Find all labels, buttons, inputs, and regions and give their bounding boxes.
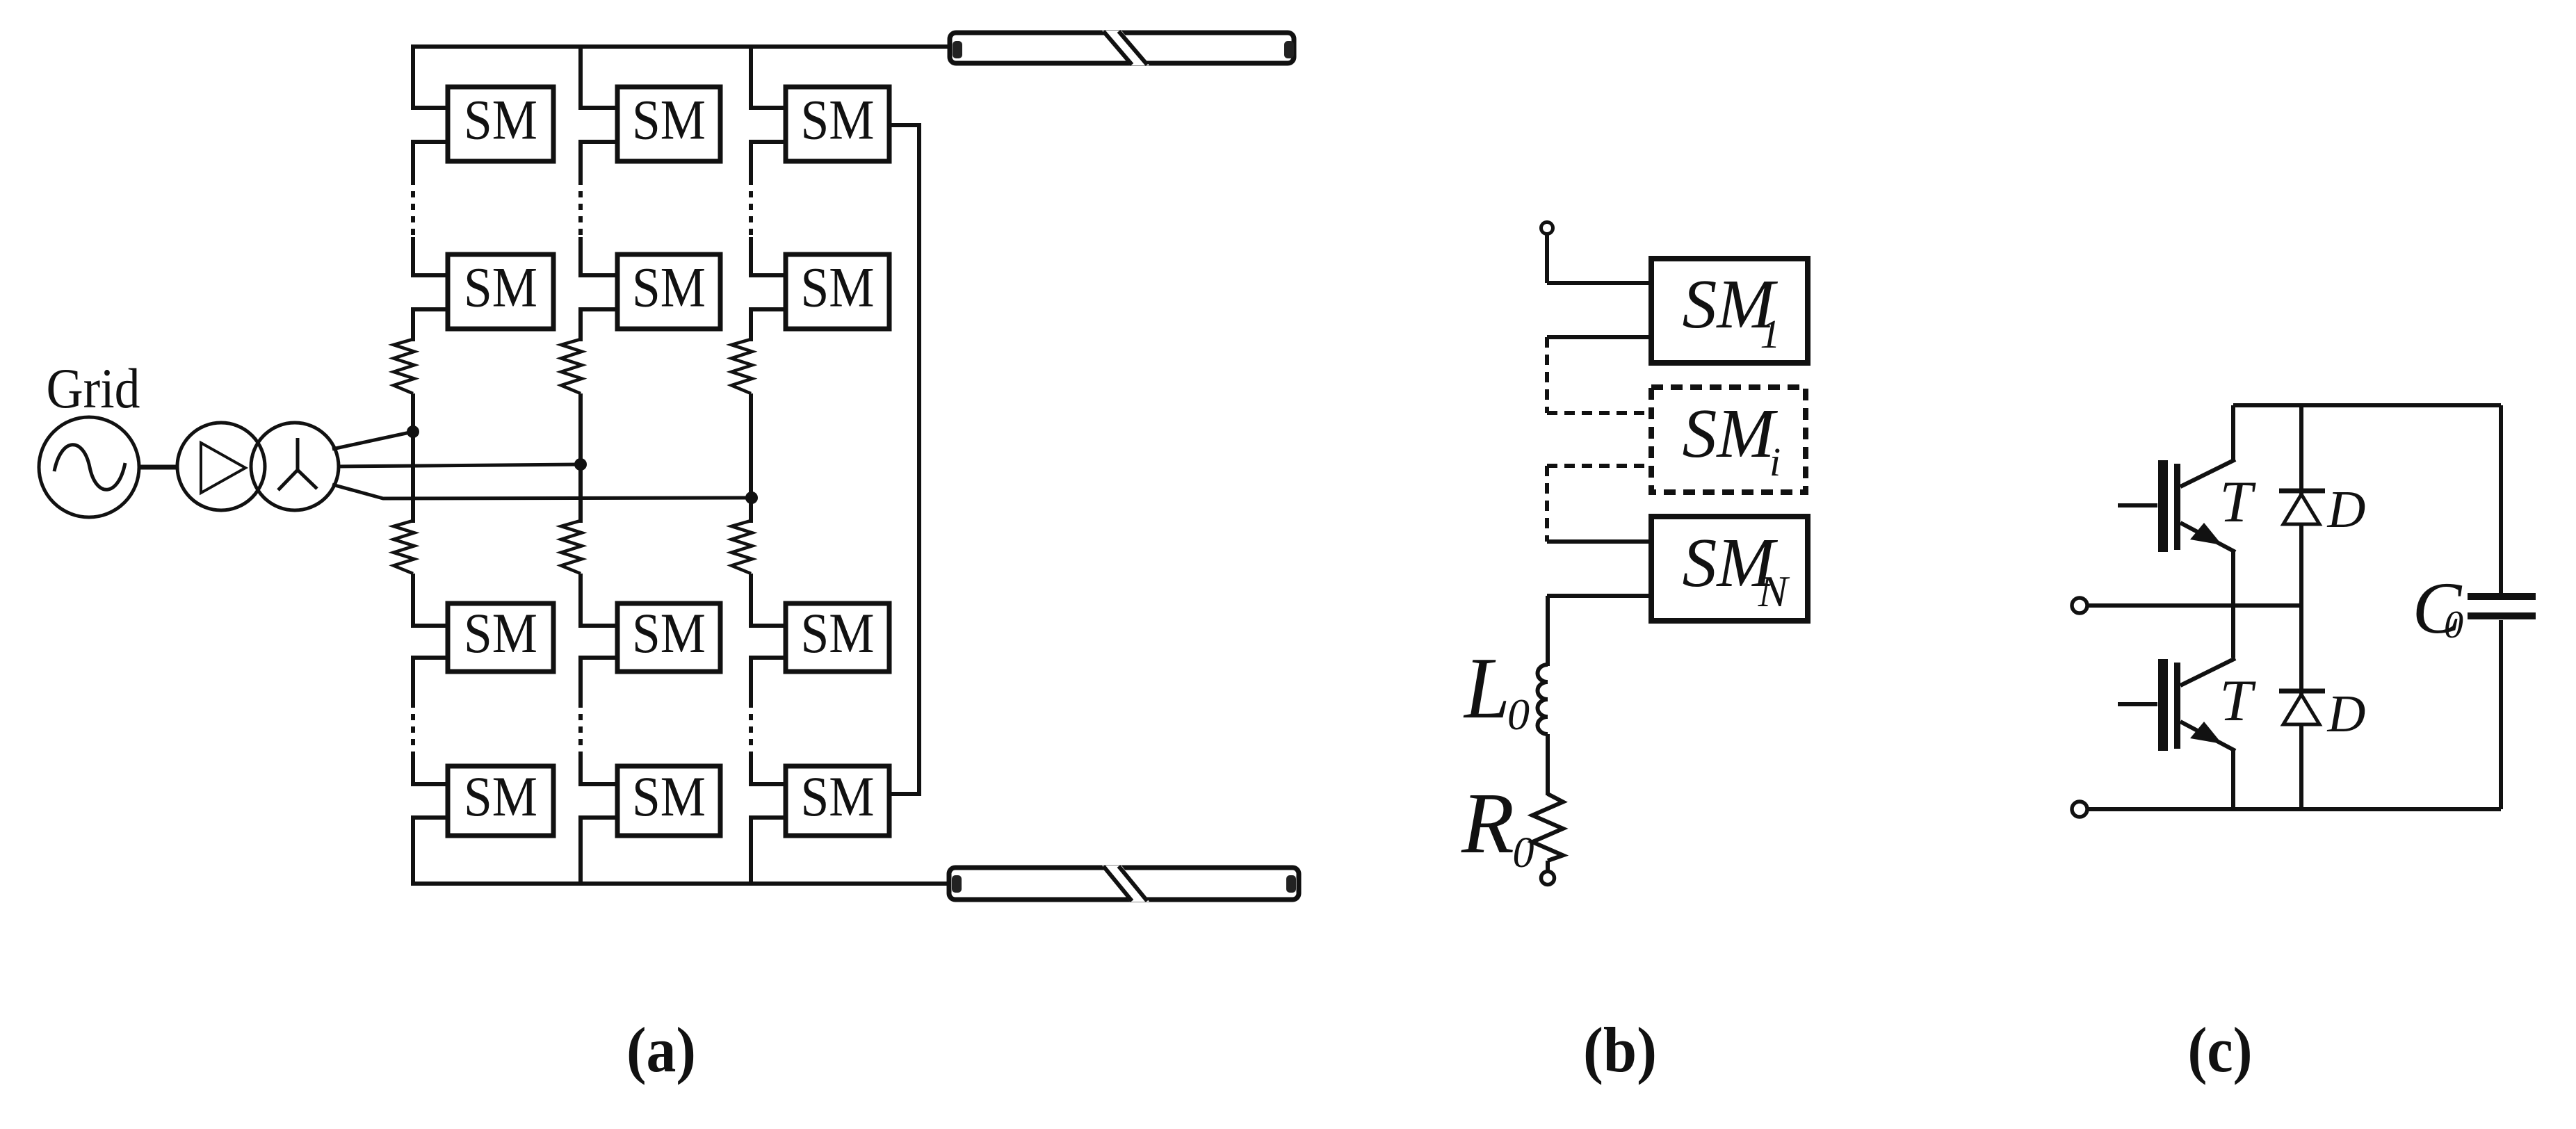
machine winding bar top (a) <box>950 31 1294 65</box>
wire mid rail (c) <box>2089 603 2301 608</box>
svg-text:(a): (a) <box>626 1014 696 1085</box>
svg-text:Grid: Grid <box>47 357 140 420</box>
wire stubs SM leg 1 row 2 <box>411 275 448 309</box>
submodule SM1 box (b) <box>1651 259 1808 363</box>
svg-text:T: T <box>2219 469 2256 535</box>
svg-text:SM: SM <box>464 88 537 152</box>
terminal node top (b) <box>1541 222 1553 234</box>
arm inductor lower leg 2 (zigzag) <box>561 521 582 574</box>
label R0 <box>1461 776 1534 877</box>
wire inductor to resistor (b) <box>1546 734 1550 795</box>
wire SM1 bottom terminal (b) <box>1547 335 1651 339</box>
phase line B to leg 2 <box>337 464 581 466</box>
svg-text:0: 0 <box>2444 603 2463 647</box>
svg-text:(c): (c) <box>2188 1014 2253 1085</box>
arm inductor lower leg 3 (zigzag) <box>731 521 752 574</box>
wire phase leg 3 lower arm <box>749 574 753 884</box>
wire stubs SM leg 3 row 4 <box>749 784 786 818</box>
terminal node bottom (b) <box>1541 872 1555 885</box>
submodule SM box leg 1 row 3 <box>448 601 553 672</box>
submodule SM box leg 2 row 2 <box>617 254 720 329</box>
svg-text:SM: SM <box>632 88 706 152</box>
svg-text:T: T <box>2219 668 2256 733</box>
junction node dot leg 3 <box>745 492 758 504</box>
wire stubs SM leg 3 row 2 <box>749 275 786 309</box>
submodule SM box leg 3 row 2 <box>786 254 889 329</box>
diode D upper (c) <box>2279 491 2325 524</box>
wire grid to converter <box>138 465 179 470</box>
wire SMN top terminal (b) <box>1547 539 1651 544</box>
wire phase leg 1 upper arm <box>411 44 415 341</box>
wire stubs SM leg 2 row 2 <box>578 275 617 309</box>
transformer secondary circle with wye <box>251 423 339 510</box>
label C0 <box>2413 567 2463 649</box>
arm inductor upper leg 2 (zigzag) <box>561 339 582 393</box>
svg-text:(b): (b) <box>1583 1014 1657 1085</box>
wire phase leg 3 upper arm <box>749 44 753 341</box>
arm inductor lower leg 1 (zigzag) <box>394 521 414 574</box>
wire stubs SM leg 3 row 1 <box>749 108 786 142</box>
terminal node bottom-left (c) <box>2072 802 2087 817</box>
submodule SM box leg 1 row 1 <box>448 87 553 161</box>
svg-text:SM: SM <box>801 88 875 152</box>
arm inductor upper leg 3 (zigzag) <box>731 339 752 393</box>
svg-text:SM: SM <box>1683 394 1779 472</box>
diode D lower (c) <box>2279 691 2325 724</box>
diode branch wire (c) <box>2299 405 2303 809</box>
wire stubs SM leg 2 row 4 <box>578 784 617 818</box>
AC source (grid) circle with sine <box>39 417 139 517</box>
wire stubs SM leg 2 row 1 <box>578 108 617 142</box>
svg-text:SM: SM <box>801 256 875 319</box>
submodule SMi dashed box (b) <box>1651 387 1806 492</box>
wire top rail (c) <box>2233 403 2501 407</box>
rectifier circle with delta/triangle (transformer primary) <box>177 423 265 510</box>
svg-text:N: N <box>1758 567 1790 616</box>
wire stubs SM leg 1 row 4 <box>411 784 448 818</box>
submodule SM box leg 2 row 3 <box>617 601 720 672</box>
wire phase leg 1 lower arm <box>411 574 415 884</box>
submodule SM box leg 3 row 3 <box>786 601 889 672</box>
wire phase leg 2 lower arm <box>578 574 583 884</box>
wire link from top-right SM to bottom-right SM <box>889 125 919 794</box>
dashed wire SMi to SMN (b) <box>1547 466 1651 542</box>
dashed wire SM1 to SMi (b) <box>1547 337 1651 413</box>
wire phase leg 2 middle <box>578 393 583 523</box>
IGBT T lower (c) <box>2118 658 2235 809</box>
submodule SM box leg 1 row 2 <box>448 254 553 329</box>
svg-text:SM: SM <box>632 765 706 828</box>
svg-text:i: i <box>1769 439 1781 485</box>
svg-text:0: 0 <box>1513 829 1534 877</box>
wire bottom rail (c) <box>2089 807 2501 811</box>
svg-text:SM: SM <box>464 601 537 665</box>
svg-text:SM: SM <box>801 601 875 665</box>
arm inductor upper leg 1 (zigzag) <box>394 339 414 393</box>
capacitor C0 (c) <box>2468 405 2536 809</box>
svg-text:SM: SM <box>464 256 537 319</box>
svg-text:SM: SM <box>632 601 706 665</box>
wire top DC bus (a) <box>411 44 952 49</box>
svg-text:L: L <box>1463 640 1510 737</box>
svg-text:R: R <box>1461 776 1514 872</box>
junction node dot leg 1 <box>407 425 419 438</box>
wire stubs SM leg 3 row 3 <box>749 626 786 658</box>
svg-text:SM: SM <box>632 256 706 319</box>
wire phase leg 3 middle <box>749 393 753 523</box>
wire bottom DC bus (a) <box>411 882 951 886</box>
wire stubs SM leg 1 row 3 <box>411 626 448 658</box>
wire stubs SM leg 1 row 1 <box>411 108 448 142</box>
wire top terminal to SM1 (b) <box>1547 234 1651 283</box>
svg-text:0: 0 <box>1507 690 1530 739</box>
wire phase leg 1 middle <box>411 393 415 523</box>
submodule SM box leg 3 row 4 <box>786 765 889 836</box>
submodule SMN box (b) <box>1651 517 1808 621</box>
terminal node mid-left (c) <box>2072 598 2087 613</box>
inductor L0 coil (b) <box>1538 665 1548 734</box>
phase line A to leg 1 <box>332 432 413 449</box>
wire stubs SM leg 2 row 3 <box>578 626 617 658</box>
svg-text:D: D <box>2327 480 2366 539</box>
submodule SM box leg 3 row 1 <box>786 87 889 161</box>
IGBT T upper (c) <box>2118 405 2235 658</box>
submodule SM box leg 2 row 4 <box>617 765 720 836</box>
label L0 <box>1463 640 1530 739</box>
svg-text:SM: SM <box>801 765 875 828</box>
machine winding bar bottom (a) <box>949 866 1299 902</box>
submodule SM box leg 2 row 1 <box>617 87 720 161</box>
svg-text:D: D <box>2327 685 2366 743</box>
junction node dot leg 2 <box>574 458 587 471</box>
submodule SM box leg 1 row 4 <box>448 765 553 836</box>
wire phase leg 2 upper arm <box>578 44 583 341</box>
svg-text:1: 1 <box>1760 311 1781 357</box>
phase line C to leg 3 <box>332 485 752 498</box>
resistor R0 zigzag (b) <box>1532 794 1563 861</box>
wire SMN bottom to inductor (b) <box>1547 596 1651 666</box>
svg-text:SM: SM <box>464 765 537 828</box>
